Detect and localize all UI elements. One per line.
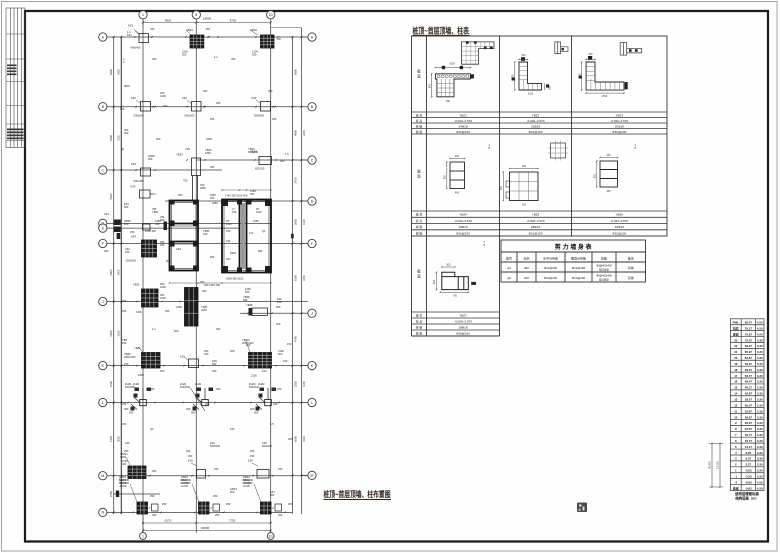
left core shear wall box [170, 201, 199, 271]
svg-text:500x500: 500x500 [185, 114, 196, 118]
svg-text:500x500: 500x500 [180, 385, 191, 389]
svg-text:20Φ18: 20Φ18 [615, 124, 624, 128]
svg-text:3.30: 3.30 [757, 380, 763, 384]
svg-text:300: 300 [231, 57, 236, 61]
svg-text:基础: 基础 [732, 485, 739, 490]
svg-text:300: 300 [182, 53, 187, 57]
svg-text:5300: 5300 [109, 193, 113, 200]
svg-text:KZ1: KZ1 [128, 24, 134, 28]
svg-text:1.5: 1.5 [285, 152, 289, 156]
svg-text:拉筋: 拉筋 [601, 256, 607, 261]
section drawing cell 2-3 : rect pier 3 div [600, 161, 618, 187]
svg-text:300: 300 [250, 407, 255, 411]
svg-text:Φ10@100: Φ10@100 [456, 331, 470, 335]
svg-text:双向梅花: 双向梅花 [599, 278, 610, 282]
svg-text:标 高: 标 高 [416, 218, 423, 223]
svg-text:纵 筋: 纵 筋 [416, 224, 423, 229]
svg-text:450: 450 [150, 27, 155, 31]
svg-text:Φ12@200: Φ12@200 [544, 266, 558, 270]
column row L2 grid3 [257, 470, 269, 479]
svg-text:3.30: 3.30 [757, 344, 763, 348]
svg-text:300: 300 [446, 264, 451, 267]
bottom dimension chains [143, 522, 271, 524]
svg-text:4.50: 4.50 [757, 486, 763, 490]
svg-text:300: 300 [203, 89, 208, 93]
axis bubble row B right [308, 103, 316, 111]
svg-text:300: 300 [278, 352, 283, 356]
svg-text:450: 450 [250, 454, 255, 458]
bracing column ZHZ1 row L [202, 400, 209, 406]
svg-text:机房: 机房 [733, 325, 739, 330]
svg-text:YBZ2: YBZ2 [532, 113, 540, 117]
svg-text:250: 250 [213, 494, 218, 498]
svg-text:D: D [311, 199, 314, 203]
shear wall table (剪力墙身表) [501, 240, 646, 282]
svg-text:250: 250 [277, 387, 282, 391]
svg-text:46.17: 46.17 [745, 386, 753, 390]
svg-text:双排: 双排 [628, 265, 634, 270]
svg-text:-0.030~3.570: -0.030~3.570 [454, 319, 472, 323]
leader lines for annotations [135, 31, 140, 35]
svg-text:49.47: 49.47 [745, 380, 753, 384]
svg-text:500: 500 [212, 362, 217, 366]
svg-text:标高: 标高 [523, 256, 529, 261]
svg-text:3.30: 3.30 [757, 374, 763, 378]
svg-text:150: 150 [226, 239, 231, 243]
svg-text:KZ4: KZ4 [131, 235, 136, 239]
svg-text:3650: 3650 [117, 436, 121, 442]
axis bubble row D right [308, 197, 316, 205]
svg-text:12: 12 [734, 403, 738, 407]
svg-text:KZ5: KZ5 [180, 355, 185, 359]
svg-text:编号: 编号 [506, 256, 512, 261]
svg-text:7730: 7730 [229, 519, 236, 523]
svg-text:PWL: PWL [733, 321, 740, 325]
svg-text:500: 500 [191, 411, 196, 415]
svg-text:29.67: 29.67 [745, 415, 753, 419]
svg-text:450: 450 [124, 131, 129, 135]
svg-text:18Φ18: 18Φ18 [615, 225, 624, 229]
svg-text:AZ1: AZ1 [104, 212, 109, 216]
svg-text:28Φ18: 28Φ18 [531, 225, 540, 229]
svg-text:150: 150 [283, 359, 288, 363]
svg-text:150: 150 [277, 300, 282, 304]
svg-text:J: J [311, 312, 313, 316]
svg-text:3.30: 3.30 [757, 409, 763, 413]
svg-text:KZ3: KZ3 [131, 162, 136, 166]
svg-text:3.30: 3.30 [757, 439, 763, 443]
svg-text:YBZ4: YBZ4 [459, 213, 467, 217]
svg-text:M: M [101, 474, 104, 478]
axis bubble row F right [308, 239, 316, 247]
svg-text:6300: 6300 [109, 134, 113, 141]
stair diagonal [191, 388, 206, 411]
svg-text:4.50: 4.50 [757, 332, 763, 336]
svg-text:纵 筋: 纵 筋 [416, 123, 423, 128]
svg-text:700: 700 [183, 179, 188, 183]
svg-text:1200: 1200 [160, 94, 166, 98]
svg-text:18: 18 [734, 368, 738, 372]
svg-text:3.30: 3.30 [757, 469, 763, 473]
section drawing cell 1-2 : L-shape [519, 62, 542, 90]
svg-text:3.30: 3.30 [757, 445, 763, 449]
svg-text:300: 300 [178, 193, 183, 197]
svg-text:3.30: 3.30 [757, 338, 763, 342]
svg-text:800: 800 [428, 83, 431, 88]
svg-text:20: 20 [734, 356, 738, 360]
svg-text:56.07: 56.07 [745, 368, 753, 372]
svg-text:4.5: 4.5 [270, 422, 274, 426]
svg-text:2100: 2100 [251, 374, 257, 378]
svg-text:YBZ3: YBZ3 [615, 113, 623, 117]
svg-text:3.30: 3.30 [757, 362, 763, 366]
svg-text:300: 300 [250, 192, 255, 196]
svg-text:150: 150 [122, 422, 127, 426]
svg-text:9170: 9170 [165, 519, 172, 523]
svg-text:250: 250 [216, 101, 221, 105]
svg-text:16: 16 [734, 380, 738, 384]
svg-text:3.30: 3.30 [757, 474, 763, 478]
svg-text:72.57: 72.57 [745, 338, 753, 342]
svg-text:39.57: 39.57 [745, 398, 753, 402]
svg-text:69.27: 69.27 [745, 344, 753, 348]
svg-text:3.30: 3.30 [757, 356, 763, 360]
svg-text:1000: 1000 [512, 74, 515, 80]
svg-text:-0.030~3.570: -0.030~3.570 [527, 119, 545, 123]
svg-text:300: 300 [125, 441, 130, 445]
svg-text:250: 250 [163, 104, 168, 108]
svg-text:500x500: 500x500 [254, 114, 265, 118]
axis bubble row E left [99, 224, 107, 232]
svg-text:400x400: 400x400 [131, 46, 142, 50]
svg-text:YBZ6: YBZ6 [133, 283, 140, 287]
svg-text:200: 200 [203, 232, 208, 236]
svg-text:500: 500 [254, 411, 259, 415]
svg-text:250: 250 [210, 117, 215, 121]
svg-text:800: 800 [594, 173, 597, 178]
svg-text:500x500: 500x500 [125, 385, 136, 389]
svg-text:250: 250 [162, 502, 167, 506]
svg-text:19: 19 [734, 362, 738, 366]
svg-text:36.27: 36.27 [745, 403, 753, 407]
svg-text:1600: 1600 [160, 296, 166, 300]
svg-text:3.30: 3.30 [757, 368, 763, 372]
svg-text:500: 500 [129, 411, 134, 415]
svg-text:150: 150 [230, 427, 235, 431]
column row B grid3 [261, 102, 271, 112]
svg-text:200: 200 [125, 250, 130, 254]
column GBZ3 [199, 502, 210, 514]
svg-text:300: 300 [216, 327, 221, 331]
svg-text:YBZ7: YBZ7 [459, 313, 467, 317]
floor elevation table [730, 319, 764, 491]
svg-text:800: 800 [444, 174, 447, 179]
svg-text:300: 300 [268, 89, 273, 93]
svg-text:500x500: 500x500 [262, 444, 273, 448]
svg-text:250: 250 [130, 230, 135, 234]
svg-text:19.77: 19.77 [745, 433, 753, 437]
section drawing cell 1-1 : top bar + left leg [435, 74, 470, 97]
svg-text:-2: -2 [735, 480, 738, 484]
svg-text:Φ10@100: Φ10@100 [456, 130, 470, 134]
svg-text:5800: 5800 [109, 269, 113, 276]
svg-text:250: 250 [214, 467, 219, 471]
column GBZ4 [261, 502, 272, 514]
row J right small column [252, 308, 268, 316]
svg-text:KZ1: KZ1 [127, 33, 132, 37]
svg-text:23: 23 [734, 338, 738, 342]
svg-text:6900: 6900 [294, 68, 298, 75]
svg-text:500x500: 500x500 [249, 385, 260, 389]
svg-text:2250: 2250 [253, 219, 259, 223]
svg-text:3150: 3150 [302, 275, 306, 281]
section drawing cell 2-2 : big square grid [510, 172, 539, 201]
svg-text:3.30: 3.30 [757, 427, 763, 431]
svg-text:300: 300 [152, 469, 157, 473]
svg-text:200: 200 [280, 159, 285, 163]
svg-text:KZ2: KZ2 [252, 96, 257, 100]
svg-text:3700: 3700 [109, 380, 113, 387]
svg-text:1500: 1500 [120, 455, 126, 459]
svg-text:1900: 1900 [302, 219, 306, 225]
anchor detail cell 1-1 (gamma) [461, 42, 494, 64]
svg-text:650: 650 [276, 305, 281, 309]
svg-text:250: 250 [205, 402, 210, 406]
axis bubble row M left [99, 472, 107, 480]
svg-text:YBZ9: YBZ9 [134, 346, 141, 350]
svg-text:500: 500 [124, 205, 129, 209]
svg-text:-0.03: -0.03 [745, 469, 752, 473]
svg-text:M: M [311, 474, 314, 478]
svg-text:650x300: 650x300 [248, 150, 259, 154]
svg-text:2250: 2250 [212, 201, 218, 205]
svg-text:17: 17 [734, 374, 738, 378]
svg-text:9900: 9900 [165, 18, 172, 22]
svg-text:250: 250 [524, 266, 529, 270]
svg-text:250: 250 [104, 249, 109, 253]
svg-text:3450: 3450 [117, 69, 121, 75]
svg-text:-9.93: -9.93 [745, 486, 752, 490]
svg-text:编 号: 编 号 [416, 112, 423, 117]
svg-text:1000: 1000 [578, 73, 581, 79]
svg-text:250: 250 [215, 513, 220, 517]
svg-text:23.07: 23.07 [745, 427, 753, 431]
svg-text:8700: 8700 [230, 18, 237, 22]
svg-text:5800: 5800 [124, 84, 130, 88]
right core corner pads [222, 200, 228, 207]
svg-text:450: 450 [433, 279, 436, 284]
svg-text:L: L [102, 401, 104, 405]
extra dimension ticks along rows [134, 36, 136, 38]
svg-text:3.30: 3.30 [757, 398, 763, 402]
svg-text:Φ10@100: Φ10@100 [612, 130, 626, 134]
column schedule table borders [412, 36, 668, 336]
svg-text:Φ10@100: Φ10@100 [529, 130, 543, 134]
svg-text:双向梅花: 双向梅花 [599, 268, 610, 272]
svg-text:结构层高（m）: 结构层高（m） [735, 496, 758, 501]
svg-text:1100: 1100 [226, 222, 232, 226]
section drawing cell 1-3 : L-shape [586, 62, 624, 90]
small wall blob near row 494 [116, 491, 119, 498]
svg-text:3700: 3700 [294, 177, 298, 184]
svg-text:3300: 3300 [230, 251, 236, 255]
svg-text:1600: 1600 [136, 310, 142, 314]
svg-text:-0.030: -0.030 [243, 481, 251, 485]
svg-text:1-1: 1-1 [152, 327, 156, 331]
axis bubble row F left [99, 239, 107, 247]
svg-text:KZ6: KZ6 [188, 459, 193, 463]
svg-text:1800x300: 1800x300 [124, 355, 136, 359]
svg-text:15: 15 [734, 386, 738, 390]
wall column hatched [128, 466, 146, 479]
svg-text:3.30: 3.30 [757, 386, 763, 390]
svg-text:250: 250 [160, 243, 165, 247]
svg-text:标 高: 标 高 [416, 318, 423, 323]
svg-text:900: 900 [258, 249, 263, 253]
axis bubble row L right [308, 398, 316, 406]
svg-text:500x500: 500x500 [134, 114, 145, 118]
svg-text:-0.030~3.570: -0.030~3.570 [527, 219, 545, 223]
svg-text:4800: 4800 [294, 129, 298, 136]
svg-text:250: 250 [122, 309, 127, 313]
svg-text:500x450: 500x450 [134, 179, 145, 183]
svg-text:150: 150 [262, 369, 267, 373]
svg-text:10: 10 [734, 415, 738, 419]
svg-text:150: 150 [287, 342, 292, 346]
svg-text:250: 250 [278, 513, 283, 517]
svg-text:32.97: 32.97 [745, 409, 753, 413]
svg-text:ZHZ2: ZHZ2 [258, 382, 265, 386]
svg-text:300: 300 [124, 407, 129, 411]
svg-text:-0.030~3.570: -0.030~3.570 [454, 219, 472, 223]
svg-text:3.30: 3.30 [757, 392, 763, 396]
svg-text:6.57: 6.57 [746, 457, 752, 461]
axis bubble col 5 top [192, 11, 200, 19]
svg-text:屋面: 屋面 [733, 331, 739, 336]
column GBZ1 hatched [190, 35, 204, 48]
column row C grid3 [259, 157, 272, 165]
svg-text:4.50: 4.50 [757, 326, 763, 330]
svg-text:13: 13 [734, 398, 738, 402]
svg-text:45.600: 45.600 [709, 461, 712, 469]
column hatched row F [142, 240, 157, 257]
svg-text:300 x: 300 x [150, 192, 157, 196]
svg-text:1100: 1100 [256, 210, 262, 214]
svg-text:300: 300 [120, 107, 125, 111]
axis bubble row N left [99, 508, 107, 516]
svg-text:250: 250 [210, 196, 215, 200]
svg-text:1850: 1850 [200, 186, 206, 190]
svg-text:250: 250 [278, 467, 283, 471]
svg-text:300: 300 [124, 222, 129, 226]
svg-text:59.37: 59.37 [745, 362, 753, 366]
axis bubble row A left [99, 33, 107, 41]
axis bubble row M right [308, 471, 316, 479]
dimension tick marks on grid [113, 36, 115, 38]
svg-text:450: 450 [204, 352, 209, 356]
svg-text:250: 250 [216, 387, 221, 391]
svg-text:纵 筋: 纵 筋 [416, 324, 423, 329]
svg-text:YBZ3: YBZ3 [176, 153, 183, 157]
svg-text:450: 450 [202, 289, 207, 293]
svg-text:250: 250 [124, 449, 129, 453]
svg-text:900: 900 [210, 255, 215, 259]
misc plan annotations [156, 137, 161, 141]
svg-text:1680: 1680 [302, 381, 306, 387]
svg-text:300: 300 [230, 349, 235, 353]
svg-text:300: 300 [252, 53, 257, 57]
svg-text:C20: C20 [185, 147, 190, 151]
column row D grid1 [140, 190, 151, 198]
small stamp mark [577, 503, 587, 513]
column GBZ2 hatched [261, 35, 275, 48]
axis bubble col 1 bottom [140, 533, 147, 540]
svg-text:1800: 1800 [138, 373, 144, 377]
axis bubble row L left [99, 398, 107, 406]
axis bubble row K right [308, 361, 316, 369]
svg-text:450: 450 [188, 454, 193, 458]
wall segment below pier grid2 [192, 176, 194, 201]
bracing column ZHZ1 row L [140, 400, 147, 406]
bracing column ZHZ2 row L [265, 400, 272, 406]
svg-text:300 1250 300: 300 1250 300 [204, 283, 220, 287]
svg-text:200: 200 [524, 276, 529, 280]
svg-text:250: 250 [288, 437, 293, 441]
svg-text:250: 250 [150, 387, 155, 391]
open rect between D/E grid1 [143, 224, 151, 230]
svg-text:350: 350 [549, 85, 552, 90]
svg-text:300: 300 [148, 157, 153, 161]
svg-text:水平分布筋: 水平分布筋 [543, 256, 558, 261]
svg-text:150: 150 [226, 229, 231, 233]
svg-text:5: 5 [195, 13, 197, 17]
svg-text:11: 11 [734, 409, 737, 413]
tall wall hatched [185, 288, 199, 327]
svg-text:6900: 6900 [109, 68, 113, 75]
svg-text:650 150: 650 150 [255, 167, 265, 171]
svg-text:300: 300 [155, 222, 160, 226]
svg-text:Φ12@200: Φ12@200 [572, 266, 586, 270]
column row L2 grid2 [197, 470, 206, 479]
svg-text:YBZ5: YBZ5 [532, 213, 540, 217]
svg-text:C: C [311, 158, 314, 162]
svg-text:400: 400 [455, 155, 460, 158]
svg-text:1: 1 [142, 534, 144, 538]
svg-text:3.30: 3.30 [757, 457, 763, 461]
svg-text:900: 900 [500, 185, 503, 190]
axis bubble row B left [99, 103, 107, 111]
svg-text:79.17: 79.17 [745, 326, 753, 330]
wall pier row C grid2 [192, 158, 201, 176]
svg-text:400: 400 [455, 192, 460, 195]
svg-text:13.200: 13.200 [717, 461, 720, 469]
svg-text:250: 250 [186, 449, 191, 453]
svg-text:YBZ2: YBZ2 [152, 210, 159, 214]
column hatched K3 [249, 353, 272, 369]
svg-text:Φ10@100: Φ10@100 [529, 231, 543, 235]
svg-text:Q1: Q1 [507, 266, 511, 270]
axis bubble row J left [99, 297, 107, 305]
svg-text:-1: -1 [735, 474, 738, 478]
svg-text:500: 500 [270, 493, 275, 497]
svg-text:250: 250 [150, 494, 155, 498]
axis bubble row A right [308, 33, 316, 41]
svg-text:7300: 7300 [109, 435, 113, 442]
svg-text:1600: 1600 [160, 285, 166, 289]
column hatched K1 [142, 353, 161, 369]
column row B grid2 [192, 102, 202, 112]
svg-text:Φ10@100: Φ10@100 [612, 231, 626, 235]
